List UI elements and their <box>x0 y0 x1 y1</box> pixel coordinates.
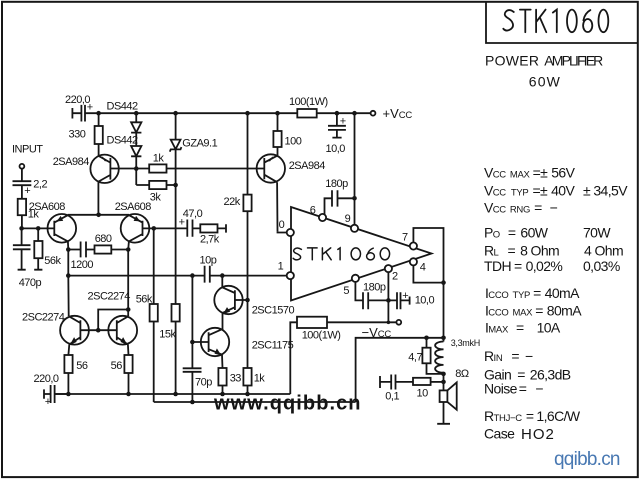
capacitor 180p (bottom, pins 5-2) <box>363 281 397 309</box>
svg-text:5: 5 <box>343 285 349 297</box>
junction rail/330 <box>96 111 101 116</box>
junction 180p/pin9 riser <box>352 196 357 201</box>
diode DS442 D2 <box>131 146 141 169</box>
resistor 10 (Zobel) <box>413 378 444 400</box>
svg-text:10p: 10p <box>200 254 217 266</box>
svg-text:470p: 470p <box>19 277 42 289</box>
svg-text:PO=60W: PO=60W <box>484 225 549 241</box>
svg-text:10: 10 <box>417 387 429 399</box>
svg-text:680: 680 <box>95 233 112 245</box>
svg-text:2SA608: 2SA608 <box>29 201 66 213</box>
wire ground rail y=394 <box>55 393 291 395</box>
svg-text:7: 7 <box>402 231 408 243</box>
svg-text:Noise=−: Noise=− <box>484 381 543 397</box>
svg-text:22k: 22k <box>224 196 241 208</box>
junction input node <box>19 226 24 231</box>
resistor 100(1W) bottom <box>297 317 396 342</box>
title box frame <box>486 2 638 43</box>
resistor 1k (input) <box>18 199 40 229</box>
svg-text:10,0: 10,0 <box>326 143 346 155</box>
wire pin7/pin4 output box <box>413 228 443 283</box>
resistor 56 (right emitter) <box>111 355 133 394</box>
junction y275/Q7 collector <box>220 273 225 278</box>
capacitor 2,2 <box>13 169 48 199</box>
wire Q2 collector drop <box>67 241 70 316</box>
svg-text:0,03%: 0,03% <box>583 258 620 274</box>
wire Q4 collector to pin 0 <box>278 231 287 234</box>
junction rail/22k <box>245 111 250 116</box>
pin 7 <box>410 242 417 249</box>
wire Q3 base to 47,0 node <box>143 227 188 229</box>
pin 5 <box>352 275 359 282</box>
resistor 680 (horizontal) <box>95 233 129 254</box>
IC triangle STK1060 <box>291 207 432 301</box>
svg-text:100: 100 <box>285 135 302 147</box>
svg-text:RIN=−: RIN=− <box>484 348 533 364</box>
inductor 3,3mkH <box>435 338 480 373</box>
svg-text:47,0: 47,0 <box>183 208 203 220</box>
svg-text:2SA984: 2SA984 <box>53 156 90 168</box>
svg-text:180p: 180p <box>325 178 348 190</box>
svg-text:4 Ohm: 4 Ohm <box>584 243 623 259</box>
wire +Vcc rail <box>85 112 371 114</box>
svg-text:2,2: 2,2 <box>33 178 47 190</box>
svg-text:VCCMAX=±56V: VCCMAX=±56V <box>484 165 576 181</box>
resistor 100(1W) top <box>289 96 328 117</box>
svg-text:HO2: HO2 <box>521 426 555 443</box>
junction tie/Q6 collector <box>126 307 131 312</box>
svg-text:RL=8 Ohm: RL=8 Ohm <box>484 243 559 259</box>
junction coil bottom <box>441 372 446 377</box>
svg-text:1k: 1k <box>254 372 266 384</box>
transistor Q3 2SA608 (right) <box>115 201 152 243</box>
svg-text:DS442: DS442 <box>107 100 139 112</box>
resistor 56k (input) <box>34 228 61 269</box>
resistor 33 <box>218 368 241 394</box>
pin 9 <box>351 225 358 232</box>
junction rail/56 left <box>66 392 71 397</box>
capacitor 180p (top, pins 6-9) <box>325 178 354 207</box>
svg-text:DS442: DS442 <box>107 134 139 146</box>
svg-text:70p: 70p <box>195 376 212 388</box>
junction 4,7 top <box>424 336 429 341</box>
wire 70p branch <box>191 276 193 369</box>
svg-text:RTHJ−C=1,6C/W: RTHJ−C=1,6C/W <box>484 408 581 424</box>
junction 680 right <box>126 247 131 252</box>
svg-text:0,1: 0,1 <box>385 391 399 403</box>
svg-text:+: + <box>45 396 51 408</box>
junction rail/100 <box>275 111 280 116</box>
svg-text:VCCRNG=−: VCCRNG=− <box>484 200 558 216</box>
junction rail/15k <box>173 392 178 397</box>
capacitor 1200 <box>68 242 94 272</box>
transistor Q6 2SC2274 (right, diode-connected) <box>88 291 138 356</box>
svg-text:0: 0 <box>279 219 285 231</box>
junction diode/Q1 base/3k <box>134 166 139 171</box>
wire mirror base tie <box>80 329 116 331</box>
transistor Q7 2SC1570 <box>214 276 294 330</box>
junction y275/70p branch <box>190 273 195 278</box>
capacitor 10,0 (top, to ground) <box>326 113 346 155</box>
wire pin2 drop <box>387 272 389 322</box>
junction 180p/10,0/pin2 <box>386 298 391 303</box>
-Vcc terminal <box>362 320 402 340</box>
svg-text:56: 56 <box>76 360 88 372</box>
svg-text:56k: 56k <box>136 293 153 305</box>
svg-text:POWER: POWER <box>485 53 539 69</box>
transistor Q5 2SC2274 (left) <box>22 311 89 355</box>
junction rail/pin9 branch <box>352 111 357 116</box>
junction Zobel/output <box>441 380 446 385</box>
svg-text:180p: 180p <box>363 281 386 293</box>
speaker 8 Ohm <box>437 368 469 424</box>
junction mirror bases <box>96 328 101 333</box>
svg-text:4: 4 <box>420 261 426 273</box>
title text STK1060 (hand-drawn stick glyphs) <box>503 10 608 33</box>
wire output node drop <box>443 283 445 342</box>
junction rail/diodes <box>134 111 139 116</box>
transistor Q4 2SA984 (right) <box>257 154 326 231</box>
wire Q7 base lead <box>235 299 248 301</box>
svg-text:10,0: 10,0 <box>415 294 435 306</box>
wire -Vcc feed riser <box>290 322 297 394</box>
resistor 56 (left emitter) <box>64 355 88 394</box>
IC name STK1060 (hollow) <box>293 248 389 260</box>
svg-text:2SC1175: 2SC1175 <box>252 339 294 351</box>
junction rail/33 <box>220 392 225 397</box>
svg-text:100(1W): 100(1W) <box>302 330 341 342</box>
svg-text:qqibb.cn: qqibb.cn <box>554 449 621 470</box>
svg-text:2SC2274: 2SC2274 <box>22 311 65 323</box>
svg-text:IMAX=10A: IMAX=10A <box>485 320 561 336</box>
svg-text:+: + <box>24 185 30 197</box>
junction rail/zener <box>173 111 178 116</box>
svg-text:1200: 1200 <box>71 259 94 271</box>
svg-text:TDH=0,02%: TDH=0,02% <box>484 258 562 274</box>
capacitor 220,0 (top) <box>65 94 93 122</box>
svg-text:+: + <box>340 115 346 127</box>
junction rail/10,0 <box>335 111 340 116</box>
svg-text:2SC2274: 2SC2274 <box>88 291 131 303</box>
junction Q3 base/56k drop <box>152 226 157 231</box>
resistor 22k <box>224 113 252 300</box>
svg-text:9: 9 <box>345 213 351 225</box>
svg-text:2: 2 <box>392 270 398 282</box>
svg-text:220,0: 220,0 <box>34 373 59 385</box>
svg-text:www.qqibb.cn: www.qqibb.cn <box>213 393 361 415</box>
svg-text:ICCOMAX=80mA: ICCOMAX=80mA <box>485 303 582 319</box>
wire feedback rail y=402 <box>154 401 356 403</box>
wire coil to speaker <box>443 374 445 391</box>
svg-text:ICCOTYP=40mA: ICCOTYP=40mA <box>485 285 580 301</box>
capacitor 70p <box>183 368 213 402</box>
pin 1 <box>287 272 294 279</box>
svg-text:6: 6 <box>310 204 316 216</box>
pin 6 <box>319 214 326 221</box>
svg-text:60W: 60W <box>529 74 561 90</box>
svg-text:4,7: 4,7 <box>408 351 422 363</box>
junction 1200 left <box>66 247 71 252</box>
svg-text:8Ω: 8Ω <box>455 368 469 380</box>
pin 0 <box>287 229 294 236</box>
junction fb rail/70p <box>190 400 195 405</box>
svg-text:56: 56 <box>111 360 123 372</box>
wire pin6 riser <box>325 198 333 215</box>
svg-text:2SC1570: 2SC1570 <box>252 304 295 316</box>
junction output/L-R <box>441 336 446 341</box>
diode DS442 D1 <box>131 113 141 146</box>
capacitor 0,1 (Zobel) <box>380 375 413 403</box>
+Vcc terminal <box>371 106 413 121</box>
capacitor 470p <box>13 228 42 289</box>
wire differential tail bus <box>68 214 129 216</box>
transistor Q2 2SA608 (left) <box>29 201 76 243</box>
resistor 15k <box>159 304 179 394</box>
wire Q1 base to diode node <box>110 168 149 170</box>
svg-text:VCCTYP=±40V: VCCTYP=±40V <box>484 183 575 199</box>
svg-text:3,3mkH: 3,3mkH <box>451 338 480 348</box>
junction Q8 base <box>190 340 195 345</box>
transistor Q1 2SA984 (left) <box>53 155 119 215</box>
input terminal <box>20 164 25 169</box>
capacitor 10,0 (bottom) <box>397 290 434 309</box>
svg-text:+: + <box>402 290 408 302</box>
svg-text:2SA608: 2SA608 <box>115 201 152 213</box>
wire signal line y=275.6 to pin 1 <box>68 275 286 277</box>
resistor 1k (Q7 bias) <box>243 300 265 394</box>
wire feedback rail riser to output <box>356 338 444 402</box>
wire Q3 collector drop <box>127 241 130 316</box>
svg-text:2SA984: 2SA984 <box>289 160 326 172</box>
pin 2 <box>385 265 392 272</box>
wire pin9 riser <box>354 113 356 225</box>
wire pin5 drop <box>355 282 363 301</box>
svg-text:3k: 3k <box>150 191 162 203</box>
junction Q1 collector / tail bus <box>96 213 101 218</box>
svg-text:+VCC: +VCC <box>383 106 413 121</box>
capacitor 47,0 + resistor 2,7k (NF trim) <box>179 208 226 246</box>
junction rail/56 right <box>126 392 131 397</box>
resistor 56k (feedback) <box>136 228 158 402</box>
svg-text:AMPLIFIER: AMPLIFIER <box>544 53 603 69</box>
junction input/56k <box>36 226 41 231</box>
wire Q8 base lead <box>192 341 208 343</box>
svg-text:1k: 1k <box>153 152 165 164</box>
resistor 100 (Q4 emitter) <box>273 113 301 155</box>
wire base-collector tie riser <box>98 310 128 331</box>
svg-text:Case: Case <box>484 426 515 442</box>
svg-text:15k: 15k <box>159 328 176 340</box>
junction y275 left <box>66 273 71 278</box>
wire zener branch down to 15k <box>175 149 177 304</box>
svg-text:1: 1 <box>278 260 284 272</box>
svg-text:INPUT: INPUT <box>12 143 43 155</box>
resistor 330 <box>69 113 103 155</box>
capacitor 10p (series) <box>200 254 217 282</box>
svg-text:GZA9.1: GZA9.1 <box>182 137 217 149</box>
resistor 4,7 <box>408 338 443 374</box>
junction -Vcc/pin2 <box>387 321 391 325</box>
resistor 1k (bias, horizontal) <box>149 152 257 172</box>
svg-text:± 34,5V: ± 34,5V <box>583 183 628 199</box>
junction output node <box>441 280 446 285</box>
svg-text:100(1W): 100(1W) <box>289 96 328 108</box>
transistor Q8 2SC1175 <box>201 328 294 368</box>
pin 4 <box>410 258 417 265</box>
zener diode GZA9.1 <box>170 113 218 152</box>
svg-text:33: 33 <box>230 372 242 384</box>
svg-text:70W: 70W <box>583 225 611 241</box>
wire input node to Q2 base <box>22 227 55 229</box>
resistor 3k (horizontal) <box>136 169 178 204</box>
svg-text:330: 330 <box>69 128 86 140</box>
junction Q7 base/22k line <box>245 298 250 303</box>
svg-text:+: + <box>87 102 93 114</box>
svg-text:56k: 56k <box>44 255 61 267</box>
capacitor 220,0 (bottom rail) <box>34 373 69 408</box>
junction rail/1k <box>245 392 250 397</box>
svg-text:2,7k: 2,7k <box>200 233 220 245</box>
